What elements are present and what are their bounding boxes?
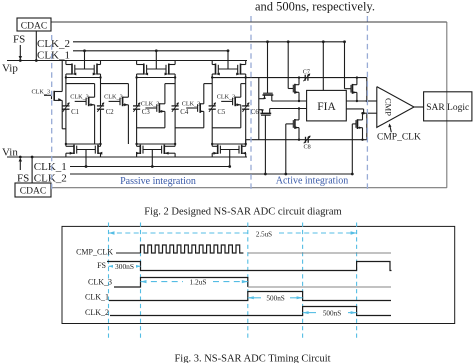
svg-text:SAR Logic: SAR Logic <box>426 103 469 113</box>
svg-text:Fig. 3. NS-SAR ADC Timing Circ: Fig. 3. NS-SAR ADC Timing Circuit <box>174 354 330 363</box>
wire Vip rail <box>7 60 247 62</box>
wire feedback top from CDAC to SAR <box>51 21 447 23</box>
svg-text:C5: C5 <box>217 109 226 116</box>
wire CLK_1 top <box>73 50 229 52</box>
node line bottom pair 1 <box>66 143 101 145</box>
annotation 500nS first <box>248 297 261 299</box>
transistor Q M1 (top middle PMOS, gate CLK_2) <box>287 42 289 89</box>
transistor pair M3c/M3d (bottom NMOS pair 3) <box>228 165 231 168</box>
timing dashed vertical x=140.5 <box>140 223 142 341</box>
wire CLK_2 top <box>73 41 345 43</box>
transistor pair M2a/M2b (top PMOS pair 2) <box>155 49 158 52</box>
svg-text:1.2uS: 1.2uS <box>189 277 206 286</box>
svg-text:C7: C7 <box>303 69 310 76</box>
wire FIA outputs to CMP <box>346 100 367 102</box>
transistor pair M2c/M2d (bottom NMOS pair 2) <box>151 165 154 168</box>
wire bottom integration rail <box>245 140 247 144</box>
capacitor C3 column <box>136 78 138 106</box>
svg-text:C2: C2 <box>106 109 115 116</box>
svg-text:C8: C8 <box>304 144 311 151</box>
timing dashed vertical x=108.5 <box>108 223 110 341</box>
arrow FS top <box>19 45 21 57</box>
capacitor C5 column <box>211 78 213 106</box>
transistor Q R2 (bottom right NMOS, gate CLK_2) <box>351 124 353 174</box>
CDAC box top <box>17 18 51 31</box>
svg-text:CMP_CLK: CMP_CLK <box>377 133 421 143</box>
node line top pair 3 <box>212 77 246 79</box>
node FS-Vin junction <box>19 156 22 159</box>
wire Vin rail <box>7 156 247 158</box>
svg-text:Fig. 2 Designed NS-SAR ADC cir: Fig. 2 Designed NS-SAR ADC circuit diagr… <box>144 207 341 218</box>
capacitor C4 column <box>174 78 176 106</box>
svg-text:CMP: CMP <box>384 98 394 116</box>
wire feedback right vertical <box>446 22 448 188</box>
svg-text:Vip: Vip <box>2 63 18 75</box>
amplifier FIA box <box>307 90 347 121</box>
CDAC box bottom <box>15 183 51 197</box>
wire active input vertical <box>258 78 260 140</box>
label CMP_CLK with arrow <box>390 126 391 133</box>
svg-text:300nS: 300nS <box>115 262 134 271</box>
wire top integration rail (to comparator) <box>212 77 367 79</box>
annotation 1.2uS <box>141 281 184 283</box>
wire CDAC-top to Vip rail <box>35 31 37 61</box>
wire CLK_1 bottom <box>70 166 230 168</box>
svg-text:500nS: 500nS <box>266 294 284 302</box>
node line top pair 1 <box>66 77 101 79</box>
svg-text:FS: FS <box>13 34 25 46</box>
wire CDAC-bottom to Vin rail <box>31 157 33 183</box>
node line bottom pair 2 <box>137 143 176 145</box>
svg-text:CLK_1: CLK_1 <box>85 293 109 302</box>
annotation 300nS <box>109 265 113 267</box>
arrow FS bottom <box>19 160 21 170</box>
timing dashed vertical x=247.8 <box>247 223 249 341</box>
svg-text:500nS: 500nS <box>323 309 341 317</box>
capacitor C8 <box>305 137 307 143</box>
svg-text:CLK_2: CLK_2 <box>37 38 70 50</box>
svg-text:FS: FS <box>17 173 29 185</box>
wire CMP output <box>414 106 424 108</box>
dashed divider right <box>366 16 368 190</box>
transistor Q M2 (bottom middle NMOS, gate CLK_2) <box>285 124 287 174</box>
svg-text:and 500ns, respectively.: and 500ns, respectively. <box>255 0 375 14</box>
transistor pair M3a/M3b (top PMOS pair 3) <box>227 49 230 52</box>
wire cell top horizontals <box>66 83 95 85</box>
svg-text:CMP_CLK: CMP_CLK <box>76 248 113 257</box>
transistor Q A (input switch top, gate CLK_2) <box>267 42 269 93</box>
signal CLK_3 gray tail <box>248 286 391 288</box>
capacitor C7 <box>304 75 306 81</box>
node line bottom pair 3 <box>212 143 246 145</box>
timing dashed vertical x=356.6 <box>356 223 358 341</box>
transistor Q R1 (top right PMOS, gate CLK_2) <box>344 42 346 89</box>
capacitor C6 column <box>245 78 247 106</box>
dashed divider middle <box>250 16 252 190</box>
svg-text:CLK_3: CLK_3 <box>88 278 112 287</box>
svg-text:C6: C6 <box>251 109 260 116</box>
annotation 500nS second <box>303 312 316 314</box>
svg-text:FIA: FIA <box>317 101 336 113</box>
annotation 2.5uS <box>109 232 251 234</box>
svg-text:CDAC: CDAC <box>20 187 46 197</box>
svg-text:CDAC: CDAC <box>21 22 47 32</box>
svg-text:2.5uS: 2.5uS <box>256 230 272 238</box>
SAR Logic box <box>424 92 472 121</box>
svg-text:CLK_1: CLK_1 <box>37 49 70 61</box>
timing dashed vertical x=302.6 <box>302 223 304 341</box>
timing diagram frame <box>62 226 455 323</box>
svg-text:CLK_2: CLK_2 <box>34 173 67 185</box>
svg-text:Active integration: Active integration <box>276 176 348 187</box>
node FS-Vip junction <box>19 59 22 62</box>
signal CMP_CLK gray tail <box>248 252 391 254</box>
transistor pair M1c/M1d (bottom NMOS pair 1) <box>85 165 88 168</box>
capacitor C1 column <box>65 78 67 106</box>
svg-text:CLK_3: CLK_3 <box>32 89 51 96</box>
node line top pair 2 <box>137 77 176 79</box>
svg-text:C1: C1 <box>71 109 79 116</box>
svg-text:Passive integration: Passive integration <box>120 176 196 187</box>
dashed divider left <box>51 35 53 190</box>
wire cell bottom horizontals <box>137 127 165 129</box>
transistor Q B (input switch bottom, gate CLK_2) <box>264 115 266 174</box>
svg-text:FS: FS <box>97 261 106 270</box>
wire FIA top port (CLK_2) <box>322 42 324 91</box>
svg-text:C4: C4 <box>180 109 189 116</box>
svg-text:C3: C3 <box>142 109 151 116</box>
op-amp U CMP comparator triangle <box>377 87 414 128</box>
wire CLK_2 bottom <box>70 173 352 175</box>
svg-text:CLK_1: CLK_1 <box>34 161 67 173</box>
capacitor C2 column <box>100 78 102 106</box>
svg-text:CLK_2: CLK_2 <box>85 308 109 317</box>
wire feedback bottom to CDAC <box>51 187 447 189</box>
transistor pair M1a/M1b (top PMOS pair 1) <box>83 49 86 52</box>
